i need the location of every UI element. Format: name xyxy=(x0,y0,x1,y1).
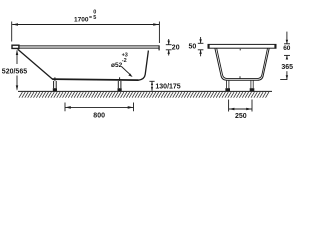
tub side view: bottom xyxy=(52,79,138,80)
dimension 250 line xyxy=(229,108,252,110)
dimension 1700 right arrow xyxy=(153,23,159,26)
dimension 50 ticks xyxy=(198,42,204,44)
tub end view: rim center tick xyxy=(239,49,241,51)
tub side view: rim top line xyxy=(19,45,159,47)
svg-text:250: 250 xyxy=(235,113,247,120)
label 1700 tolerance xyxy=(89,16,92,18)
svg-text:5: 5 xyxy=(93,15,96,21)
ground hatch xyxy=(19,92,269,98)
dimension 130/175 tick xyxy=(149,80,154,82)
svg-text:20: 20 xyxy=(172,44,180,51)
tub end view: rim left cap xyxy=(208,44,210,49)
dimension 50 arrows xyxy=(200,37,202,43)
dimension 250 extensions xyxy=(228,100,230,112)
dimension 20 ticks xyxy=(166,44,172,46)
svg-text:-2: -2 xyxy=(122,58,127,64)
dimension 1700 line xyxy=(12,24,159,26)
tub side view: rim bottom line xyxy=(19,47,159,49)
left foot side view xyxy=(53,77,57,91)
svg-text:50: 50 xyxy=(189,44,197,51)
svg-text:800: 800 xyxy=(93,113,105,120)
svg-text:130/175: 130/175 xyxy=(155,83,180,90)
svg-text:520/565: 520/565 xyxy=(2,68,27,75)
dimension 20 arrows xyxy=(168,39,170,45)
right foot end view xyxy=(250,80,255,91)
tub side view: right end cap xyxy=(158,45,160,50)
dimension 800 extensions xyxy=(64,103,66,112)
left foot end view xyxy=(225,80,230,91)
dimension 365 line and bottom arrow xyxy=(286,71,288,79)
dimension 520/565 bottom arrow xyxy=(16,76,18,90)
tub end view: center tick xyxy=(239,76,241,79)
dimension 1700 right extension xyxy=(158,22,160,44)
svg-text:1700: 1700 xyxy=(74,16,89,23)
dimension 1700 left extension xyxy=(11,22,13,42)
tub end view: rim bar xyxy=(208,44,276,48)
tub end view: inner shell xyxy=(217,48,268,78)
dimension 520/565 top arrow xyxy=(16,51,18,65)
dimension 800 line xyxy=(65,106,134,108)
tub side view: drain end curve and foot-end wall xyxy=(139,51,149,81)
dimension o52 leader xyxy=(122,67,131,76)
svg-text:365: 365 xyxy=(281,64,293,71)
tub side view: left lip xyxy=(12,45,19,48)
dimension 60 tick top xyxy=(284,43,290,45)
svg-text:60: 60 xyxy=(283,45,291,52)
tub end view: rim right cap xyxy=(274,44,276,49)
dimension 60 tick bottom / 365 top arrow xyxy=(284,54,290,56)
dimension 1700 left arrow xyxy=(12,23,18,26)
dimension 130/175 arrows xyxy=(151,81,153,91)
tub side view: head slope xyxy=(18,49,53,79)
tub end view: outer shell xyxy=(215,48,269,80)
ground line xyxy=(18,90,272,92)
right foot side view xyxy=(118,77,122,91)
